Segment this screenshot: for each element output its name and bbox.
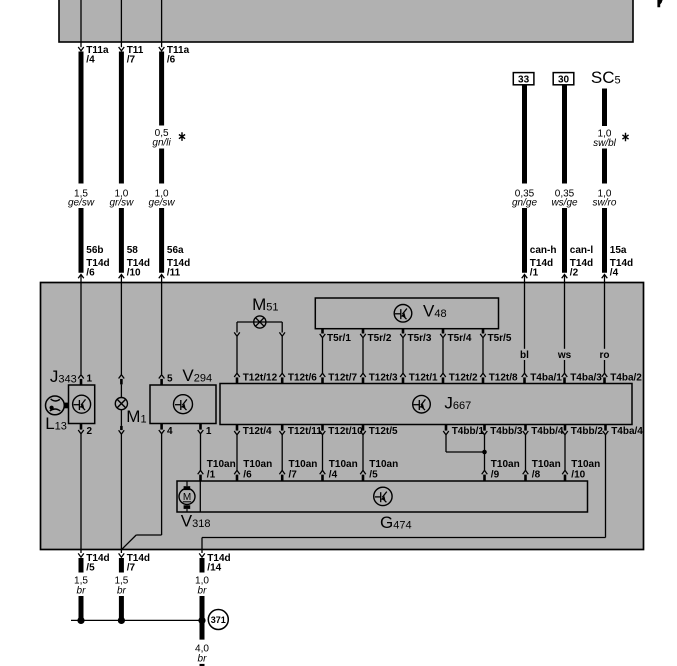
svg-text:gr/sw: gr/sw — [109, 198, 134, 209]
svg-text:/11: /11 — [167, 268, 181, 279]
svg-text:T4ba/4: T4ba/4 — [611, 426, 643, 437]
svg-text:can-h: can-h — [530, 245, 557, 256]
svg-text:371: 371 — [211, 615, 226, 625]
svg-text:5: 5 — [167, 373, 173, 384]
svg-text:56a: 56a — [167, 245, 184, 256]
svg-text:T12t/8: T12t/8 — [489, 373, 518, 384]
svg-text:/10: /10 — [127, 268, 141, 279]
svg-text:/6: /6 — [243, 469, 252, 480]
svg-text:T4ba/3: T4ba/3 — [570, 373, 602, 384]
svg-text:T4ba/1: T4ba/1 — [530, 373, 562, 384]
svg-text:sw/ro: sw/ro — [593, 198, 617, 209]
svg-text:T4ba/2: T4ba/2 — [610, 373, 642, 384]
svg-text:/5: /5 — [369, 469, 378, 480]
svg-text:ws: ws — [557, 350, 572, 361]
svg-text:/9: /9 — [491, 469, 500, 480]
svg-text:T12t/2: T12t/2 — [449, 373, 478, 384]
svg-text:ro: ro — [600, 350, 610, 361]
svg-text:/1: /1 — [207, 469, 216, 480]
svg-text:/4: /4 — [610, 268, 619, 279]
svg-text:br: br — [198, 585, 208, 596]
svg-text:58: 58 — [127, 245, 139, 256]
svg-text:ge/sw: ge/sw — [149, 198, 176, 209]
svg-text:T12t/3: T12t/3 — [369, 373, 398, 384]
svg-text:30: 30 — [558, 74, 570, 85]
svg-text:T12t/10: T12t/10 — [328, 426, 363, 437]
svg-text:bl: bl — [520, 350, 529, 361]
svg-text:T4bb/4: T4bb/4 — [531, 426, 564, 437]
svg-text:T5r/3: T5r/3 — [408, 333, 432, 344]
svg-text:4: 4 — [167, 426, 173, 437]
svg-text:br: br — [117, 585, 127, 596]
svg-text:15a: 15a — [610, 245, 627, 256]
svg-text:T12t/1: T12t/1 — [409, 373, 438, 384]
svg-text:56b: 56b — [86, 245, 103, 256]
svg-text:/4: /4 — [329, 469, 338, 480]
svg-text:/7: /7 — [289, 469, 298, 480]
svg-text:T4bb/2: T4bb/2 — [571, 426, 604, 437]
svg-text:/6: /6 — [86, 268, 95, 279]
svg-text:ge/sw: ge/sw — [68, 198, 95, 209]
svg-text:sw/bl: sw/bl — [593, 138, 617, 149]
svg-text:T12t/7: T12t/7 — [328, 373, 357, 384]
svg-text:33: 33 — [518, 74, 530, 85]
svg-text:T12t/12: T12t/12 — [243, 373, 278, 384]
svg-text:T4bb/3: T4bb/3 — [490, 426, 523, 437]
svg-text:/5: /5 — [86, 563, 95, 574]
svg-text:1: 1 — [206, 426, 212, 437]
svg-text:ws/ge: ws/ge — [551, 198, 578, 209]
svg-text:/10: /10 — [571, 469, 585, 480]
svg-text:gn/ge: gn/ge — [512, 198, 537, 209]
svg-text:br: br — [77, 585, 87, 596]
svg-text:T12t/11: T12t/11 — [288, 426, 322, 437]
svg-text:/8: /8 — [532, 469, 541, 480]
svg-text:SC5: SC5 — [591, 68, 621, 87]
svg-text:/2: /2 — [570, 268, 579, 279]
svg-text:T5r/2: T5r/2 — [368, 333, 392, 344]
svg-text:T5r/4: T5r/4 — [448, 333, 472, 344]
svg-text:gn/li: gn/li — [152, 137, 171, 148]
svg-text:/7: /7 — [127, 55, 136, 66]
svg-text:br: br — [198, 653, 208, 664]
svg-text:can-l: can-l — [570, 245, 594, 256]
svg-text:/4: /4 — [86, 55, 95, 66]
svg-text:/1: /1 — [530, 268, 539, 279]
svg-text:/6: /6 — [167, 55, 176, 66]
svg-text:T5r/1: T5r/1 — [327, 333, 351, 344]
svg-text:T12t/4: T12t/4 — [243, 426, 272, 437]
svg-text:T4bb/1: T4bb/1 — [452, 426, 485, 437]
svg-text:T5r/5: T5r/5 — [488, 333, 512, 344]
svg-text:1: 1 — [87, 373, 93, 384]
svg-text:2: 2 — [87, 426, 93, 437]
svg-text:T12t/6: T12t/6 — [288, 373, 317, 384]
svg-text:T12t/5: T12t/5 — [369, 426, 398, 437]
svg-text:/7: /7 — [127, 563, 136, 574]
svg-text:/14: /14 — [207, 563, 221, 574]
